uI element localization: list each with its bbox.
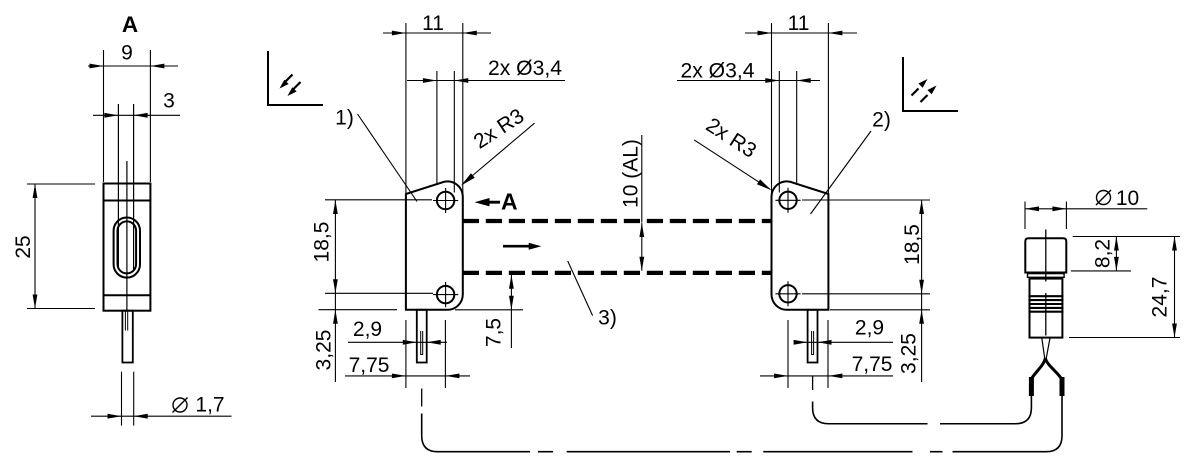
optical symbol right arrow 1	[912, 89, 919, 96]
extension line hole right edge	[453, 71, 455, 193]
dimension 7,5 line	[510, 275, 512, 348]
lower cable break dash 1	[538, 451, 553, 453]
lower cable break dash 2	[737, 451, 752, 453]
svg-text:10 (AL): 10 (AL)	[620, 139, 643, 208]
dimension dia 10 symbol	[1097, 191, 1111, 205]
extension line dia10 left	[1024, 202, 1026, 230]
fiber band bottom dashed edge	[463, 271, 772, 275]
label 2x R3 right	[702, 113, 761, 162]
extension line hole right edge right	[796, 71, 798, 185]
CABLES GROUP	[422, 396, 1062, 452]
dimension 3,4 right line	[677, 80, 820, 82]
side body outline	[104, 184, 151, 311]
left bottom hole	[437, 286, 454, 303]
extension line 7,75 right-right	[827, 320, 829, 388]
leader 2x R3 left	[463, 123, 535, 184]
right cable elbow	[813, 402, 928, 424]
extension line 1,7 right	[133, 372, 135, 426]
dimension 3,25 right line	[921, 294, 923, 382]
extension line 10 (AL)	[641, 135, 643, 223]
dimension 24,7 text	[1149, 277, 1172, 318]
extension line hole bottom right	[802, 293, 930, 295]
svg-text:A: A	[501, 188, 518, 214]
connector ribs	[1028, 296, 1063, 312]
svg-text:2,9: 2,9	[353, 318, 382, 341]
svg-text:1,7: 1,7	[195, 394, 224, 417]
extension line hole bottom left	[325, 292, 433, 294]
dimension 11 line	[383, 32, 491, 34]
optical symbol left corner	[268, 51, 323, 105]
extension line 11 right-left	[771, 23, 773, 193]
svg-text:3,25: 3,25	[897, 333, 920, 374]
fiber line right	[133, 104, 135, 270]
extension line 7,5 bottom	[455, 309, 523, 311]
extension line 11 right-right	[827, 23, 829, 194]
extension line 9 left	[103, 50, 105, 182]
dimension 24,7 line	[1174, 237, 1176, 338]
svg-text:3: 3	[163, 90, 175, 113]
dimension 18,5 right text	[901, 224, 924, 265]
dimension 25 text	[12, 235, 35, 258]
optical symbol right corner	[903, 57, 958, 111]
extension line head top	[1073, 236, 1180, 238]
right boot	[1060, 377, 1065, 396]
fiber band top dashed edge	[463, 219, 772, 223]
left pin	[417, 310, 427, 363]
fiber centerline	[126, 161, 128, 311]
dimension 8,2 line	[1115, 237, 1117, 271]
dimension 3,4 line	[407, 80, 565, 82]
CONNECTOR GROUP	[1025, 187, 1180, 396]
centerline right pin	[812, 376, 814, 390]
leader 2)	[811, 131, 872, 214]
svg-text:2x Ø3,4: 2x Ø3,4	[681, 60, 755, 83]
dimension 2,9 right line	[794, 341, 893, 343]
slot inner obround	[118, 221, 137, 273]
dimension 9 line	[88, 65, 178, 67]
optical symbol left arrow 1	[286, 75, 293, 82]
svg-text:9: 9	[121, 42, 133, 65]
wires from tube	[1042, 338, 1050, 360]
fiber line left	[117, 104, 119, 268]
label 2x R3 left	[470, 104, 529, 153]
lower cable right elbow	[953, 396, 1063, 452]
extension line body bottom left	[319, 309, 398, 311]
dimension 18,5 left text	[311, 222, 334, 263]
side body bottom groove	[104, 294, 151, 296]
svg-text:3): 3)	[598, 307, 617, 330]
dimension 7,75 right line	[760, 375, 893, 377]
svg-text:7,5: 7,5	[483, 318, 506, 347]
right bottom hole	[779, 285, 796, 302]
left body outline	[406, 181, 463, 309]
dimension 3 line	[93, 114, 180, 116]
extension line head bottom	[1071, 270, 1131, 272]
BAND GROUP	[463, 135, 772, 330]
svg-text:10: 10	[1116, 187, 1139, 210]
dimension 7,5 text	[483, 318, 506, 347]
SIDE VIEW GROUP	[12, 12, 323, 426]
LEFT BODY GROUP	[311, 12, 566, 407]
dimension 2,9 left line	[348, 341, 447, 343]
svg-text:8,2: 8,2	[1092, 239, 1115, 268]
side body top groove	[104, 200, 151, 202]
svg-text:2): 2)	[872, 109, 891, 132]
extension line 7,75 right-left	[787, 320, 789, 388]
leader 2x R3 right	[694, 140, 770, 189]
extension line 7,75 right	[444, 320, 446, 388]
svg-text:2,9: 2,9	[855, 317, 884, 340]
svg-text:11: 11	[788, 12, 810, 35]
lower cable break dash 3	[930, 451, 943, 453]
dimension 10 (AL) line	[641, 223, 643, 271]
dimension 18,5 right line	[921, 200, 923, 294]
left boot	[1029, 377, 1034, 396]
dimension 10 line	[1025, 208, 1147, 210]
extension line 9 right	[149, 50, 151, 182]
extension line 1,7 left	[121, 372, 123, 426]
left pin slot	[421, 331, 423, 355]
Y splitter left arm	[1032, 358, 1045, 378]
connector head	[1025, 238, 1066, 272]
Y splitter right arm	[1045, 358, 1060, 378]
band direction arrow	[503, 243, 541, 250]
extension line 7,75 left	[405, 320, 407, 388]
svg-text:A: A	[122, 12, 138, 37]
extension line hole left edge right	[778, 71, 780, 193]
svg-text:24,7: 24,7	[1149, 277, 1172, 318]
svg-text:25: 25	[12, 235, 35, 258]
svg-text:18,5: 18,5	[901, 224, 924, 265]
extension line 11 left	[405, 23, 407, 193]
svg-text:1): 1)	[335, 107, 354, 130]
extension line 11 right	[462, 23, 464, 198]
extension line hole left edge	[436, 71, 438, 185]
centerline left pin	[421, 389, 423, 407]
lower cable segment 2	[567, 451, 730, 453]
dimension 8,2 text	[1092, 239, 1115, 268]
RIGHT BODY GROUP	[677, 12, 958, 390]
dimension 3,25 left text	[313, 330, 336, 371]
svg-text:7,75: 7,75	[349, 354, 390, 377]
section arrow A	[475, 198, 501, 206]
dimension 3,25 right text	[897, 333, 920, 374]
svg-text:2x Ø3,4: 2x Ø3,4	[488, 57, 562, 80]
extension line 25 top	[27, 183, 95, 185]
left cable elbow	[422, 414, 530, 452]
optical symbol right arrow 2	[921, 95, 928, 102]
right top hole	[779, 192, 796, 209]
dimension 10 (AL) text	[620, 139, 643, 208]
extension line hole top right	[802, 199, 930, 201]
dimension 11 right line	[745, 32, 857, 34]
dimension 1,7 line	[91, 415, 232, 417]
svg-text:18,5: 18,5	[311, 222, 334, 263]
svg-text:7,75: 7,75	[852, 353, 893, 376]
right pin	[808, 310, 818, 363]
left top hole	[437, 192, 454, 209]
dimension dia 1,7 symbol	[173, 398, 187, 412]
dimension 25 line	[34, 184, 36, 309]
side pin	[122, 311, 132, 363]
right body outline	[771, 181, 828, 309]
optical symbol left arrow 2	[294, 82, 301, 89]
dimension 18,5 left line	[334, 200, 336, 293]
leader 1)	[358, 114, 418, 202]
dimension 3,25 left line	[334, 293, 336, 382]
extension line dia10 right	[1065, 202, 1067, 230]
leader 3)	[568, 261, 593, 316]
connector collar	[1028, 274, 1065, 278]
dimension 7,75 left line	[345, 375, 470, 377]
svg-text:3,25: 3,25	[313, 330, 336, 371]
lower cable segment 3	[763, 451, 912, 453]
extension line body bottom right	[830, 309, 930, 311]
extension line 25 bottom	[27, 308, 95, 310]
extension line hole top left	[325, 199, 432, 201]
slot outer obround	[114, 218, 140, 278]
extension line tube bottom	[1069, 337, 1180, 339]
upper cable right elbow	[940, 396, 1031, 424]
connector tube	[1030, 279, 1063, 338]
svg-text:11: 11	[422, 12, 444, 35]
right pin slot	[812, 331, 814, 355]
